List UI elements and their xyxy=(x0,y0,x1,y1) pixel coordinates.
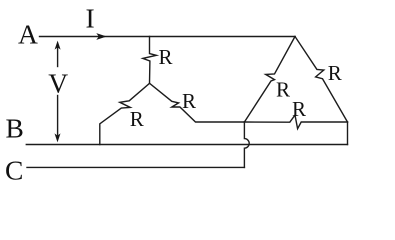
svg-text:R: R xyxy=(276,78,290,102)
svg-text:C: C xyxy=(5,154,23,185)
svg-text:R: R xyxy=(292,97,306,121)
svg-text:V: V xyxy=(48,67,68,98)
svg-text:R: R xyxy=(328,61,342,85)
svg-text:A: A xyxy=(18,19,38,50)
svg-text:R: R xyxy=(182,89,196,113)
svg-text:R: R xyxy=(159,45,173,69)
svg-text:I: I xyxy=(86,3,95,34)
svg-text:B: B xyxy=(6,112,24,143)
svg-text:R: R xyxy=(130,107,144,131)
